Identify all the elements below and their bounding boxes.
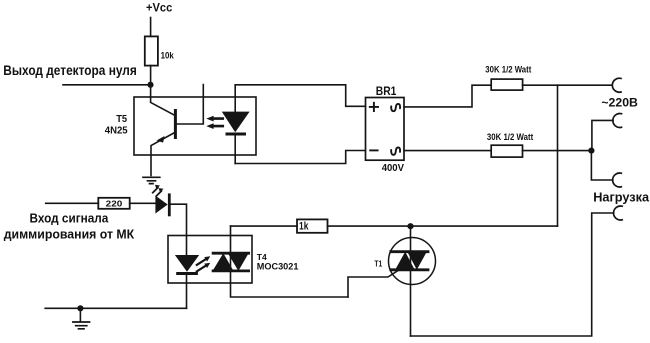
LED D of T5: cathode wire — [234, 136, 236, 164]
wire T5 LED anode to BR1 plus — [235, 85, 365, 107]
LED D2 cathode bar — [168, 195, 171, 215]
BR1 ac curl bottom — [391, 147, 400, 154]
resistor 30K-1 — [491, 79, 522, 90]
LED of T4: triangle — [175, 255, 199, 272]
svg-text:1k: 1k — [299, 221, 309, 233]
BR1 ac curl top — [391, 104, 400, 111]
wire node B to load connector top — [591, 151, 612, 180]
wire mains line down to T1 anode — [557, 85, 559, 226]
LED of T4: cathode bar — [178, 272, 197, 275]
wire MCU ground rail — [45, 307, 186, 309]
svg-text:~220В: ~220В — [601, 95, 638, 109]
transistor Q of T5: emitter wire — [151, 133, 174, 176]
triac of T4: triangle up — [213, 253, 234, 271]
wire connector 220V bottom to node B — [592, 120, 613, 150]
transistor Q of T5: base wire stub pin6 — [177, 85, 203, 125]
triac T1 triangle down — [407, 252, 427, 270]
triac T1 triangle up — [395, 252, 415, 270]
bridge rectifier BR1 box — [366, 98, 405, 161]
resistor 30K-2 — [491, 145, 522, 157]
wire T5 LED cathode to BR1 minus — [235, 151, 365, 164]
transistor Q of T5: collector wire — [151, 97, 174, 115]
svg-text:400V: 400V — [382, 163, 404, 174]
svg-text:+Vcc: +Vcc — [146, 1, 172, 15]
svg-text:BR1: BR1 — [376, 84, 397, 98]
wire zero detector output — [63, 84, 151, 86]
wire T1 vertical main terminal — [410, 226, 412, 336]
wire LED D2 to MOC LED anode — [169, 204, 186, 255]
svg-text:MOC3021: MOC3021 — [257, 262, 299, 272]
LED D of T5: cathode bar — [227, 133, 245, 136]
svg-text:30K 1/2 Watt: 30K 1/2 Watt — [485, 65, 531, 75]
triac T1 bottom bar — [391, 268, 428, 271]
svg-text:Вход сигнала: Вход сигнала — [30, 212, 110, 226]
connector 220V top — [612, 78, 621, 92]
wire BR1 ac top to R 30K-1 — [404, 85, 491, 107]
wire input to R 220 — [46, 202, 99, 204]
svg-text:T5: T5 — [116, 114, 127, 125]
resistor 10k — [145, 36, 158, 65]
svg-text:4N25: 4N25 — [105, 126, 128, 137]
triac of T4: triangle down — [228, 253, 249, 271]
resistor 220 — [98, 198, 129, 209]
op-to box T4 MOC3021 — [168, 236, 252, 284]
triac T1 top bar — [391, 250, 428, 253]
svg-text:220: 220 — [106, 198, 123, 208]
wire 1k to T1 anode line — [328, 225, 558, 227]
connector load bottom — [614, 206, 623, 220]
connector load top — [613, 173, 622, 187]
svg-text:10k: 10k — [161, 49, 175, 60]
triac T1 circle — [389, 238, 436, 285]
node C junction dot — [407, 223, 413, 229]
svg-text:Выход детектора нуля: Выход детектора нуля — [3, 63, 137, 78]
wire 10k to node A — [150, 66, 152, 97]
wire MOC triac to 1k — [231, 225, 298, 227]
triac of T4: top bar — [213, 252, 249, 255]
wire R 220 to LED D2 — [130, 202, 156, 204]
transistor Q of T5: base bar — [174, 111, 177, 138]
LED D2 triangle — [155, 196, 167, 214]
node D junction dot — [77, 305, 83, 311]
svg-text:T1: T1 — [374, 259, 382, 269]
wire R 30K-1 to connector 220V top — [523, 84, 612, 86]
svg-text:30K 1/2 Watt: 30K 1/2 Watt — [487, 132, 533, 142]
op-to box T5 — [134, 97, 256, 155]
svg-text:Нагрузка: Нагрузка — [593, 190, 650, 205]
ground of T5 emitter — [143, 177, 160, 183]
node A junction dot — [147, 82, 153, 88]
wire T1 gate — [348, 269, 401, 297]
wire load bottom to T1 cathode — [411, 213, 614, 336]
light arrows T4 — [197, 260, 205, 272]
LED D of T5: anode wire — [234, 85, 236, 112]
svg-text:T4: T4 — [257, 252, 267, 262]
LED D2 emission arrows — [153, 188, 162, 196]
transistor Q of T5: emitter arrowhead — [157, 136, 165, 143]
wire R 30K-2 to node B — [523, 150, 592, 152]
ground of input rail — [79, 308, 81, 321]
resistor 1k — [297, 219, 328, 232]
wire BR1 ac bottom to R 30K-2 — [404, 150, 491, 152]
LED D of T5: triangle — [222, 112, 250, 133]
light arrows T5 — [213, 119, 223, 127]
BR1 plus mark — [370, 103, 378, 111]
wire MOC triac vertical — [231, 226, 349, 297]
wire Vcc to R 10k — [150, 18, 152, 37]
connector 220V bottom — [613, 114, 622, 128]
node B junction dot — [588, 148, 594, 154]
BR1 minus mark — [370, 149, 377, 151]
svg-text:диммирования от МК: диммирования от МК — [4, 227, 135, 241]
triac of T4: bottom bar — [213, 269, 249, 272]
LED of T4: cathode wire — [186, 275, 188, 308]
